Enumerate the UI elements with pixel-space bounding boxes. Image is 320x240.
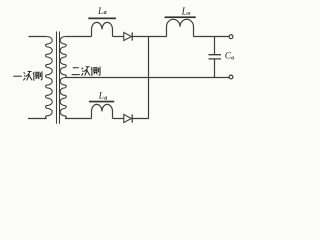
label 二次側 (secondary side)	[72, 67, 100, 77]
wire La2 to D2	[113, 118, 124, 120]
wire primary top lead	[29, 36, 47, 38]
label La1	[97, 6, 234, 101]
svg-text:o: o	[187, 11, 190, 17]
inductor La2 core bar	[89, 101, 114, 103]
capacitor Co bottom lead	[214, 60, 216, 78]
svg-text:L: L	[98, 92, 104, 102]
wire Lo to output +	[194, 36, 230, 38]
diode D1	[124, 32, 132, 40]
inductor La1 body	[92, 22, 113, 36]
capacitor Co plates	[209, 55, 222, 59]
inductor La2 body	[92, 104, 113, 118]
側	[91, 67, 100, 77]
二	[72, 68, 80, 75]
svg-text:L: L	[97, 7, 103, 17]
transformer T1 secondary winding	[60, 37, 66, 119]
次	[23, 71, 32, 80]
node junction vertical D2 to top rail	[148, 37, 150, 119]
wire primary bottom lead	[28, 118, 47, 120]
wire center tap rail	[65, 77, 229, 79]
terminal output +	[229, 35, 233, 39]
label 一次側 (primary side)	[13, 71, 42, 81]
diode D2	[124, 114, 132, 122]
wire D1 to Lo	[132, 36, 166, 38]
svg-text:a: a	[104, 10, 107, 16]
transformer T1 core	[57, 32, 60, 124]
inductor Lo body	[167, 19, 194, 36]
capacitor Co top lead	[214, 37, 216, 55]
transformer T1 primary winding	[46, 37, 53, 119]
wire secondary top to La1	[65, 36, 91, 38]
wire secondary bottom to La2	[65, 118, 91, 120]
次	[81, 67, 90, 76]
inductor La1 core bar	[88, 18, 116, 20]
terminal output -	[229, 75, 233, 79]
wire D2 to junction	[132, 118, 148, 120]
一	[13, 75, 21, 77]
svg-text:o: o	[231, 55, 234, 61]
inductor Lo core bar	[165, 16, 196, 18]
側	[33, 71, 42, 81]
svg-text:a: a	[104, 95, 107, 101]
wire La1 to D1	[113, 36, 124, 38]
